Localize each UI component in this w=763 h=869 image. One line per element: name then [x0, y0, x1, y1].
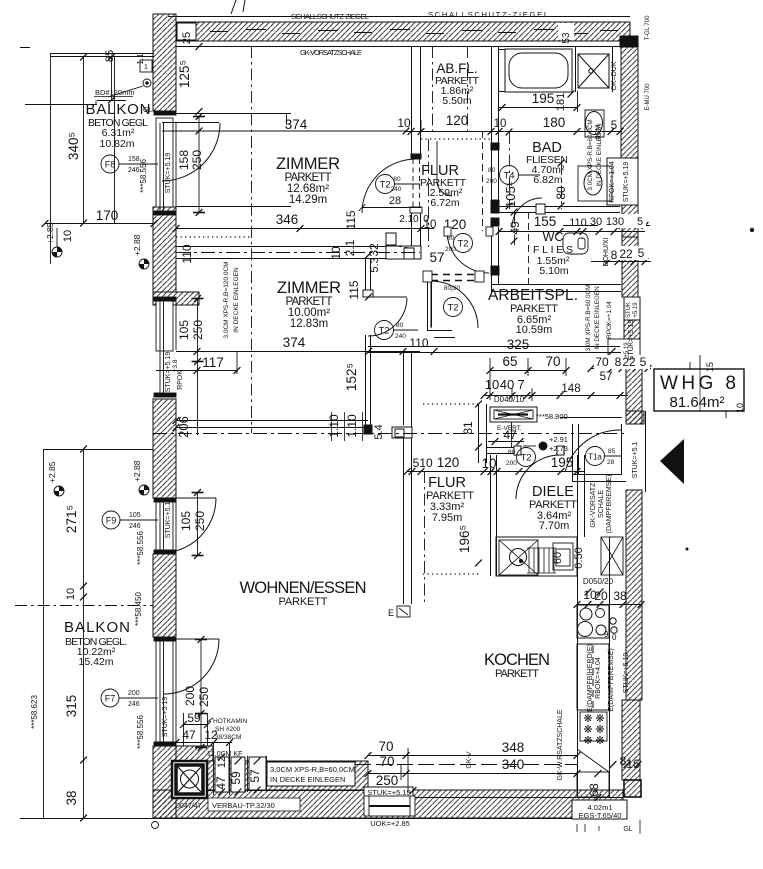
DIELE: [529, 484, 577, 532]
BALKON 2: [64, 619, 130, 668]
svg-text:10: 10: [62, 230, 74, 242]
svg-text:38/38CM: 38/38CM: [215, 734, 241, 741]
kitchen column left edge: [577, 537, 579, 797]
svg-text:250: 250: [190, 150, 204, 170]
svg-text:9: 9: [604, 630, 609, 639]
svg-text:+2.91: +2.91: [549, 435, 568, 444]
svg-text:240: 240: [395, 333, 406, 340]
svg-text:80: 80: [447, 235, 455, 242]
stray dots right: [750, 228, 754, 232]
row D double y420/427 + dash-dot y433: [176, 420, 368, 422]
balcony1 col x83: [80, 54, 87, 61]
svg-text:68: 68: [587, 783, 601, 797]
svg-text:F9: F9: [106, 516, 117, 526]
svg-text:3.0M XPS-R.B=60.0CM: 3.0M XPS-R.B=60.0CM: [585, 285, 592, 352]
svg-text:GL: GL: [143, 107, 152, 114]
svg-text:WC: WC: [543, 230, 564, 244]
svg-text:0.50: 0.50: [573, 547, 585, 568]
svg-text:15.42m: 15.42m: [78, 656, 113, 668]
70 8 22 5 y368: [588, 365, 595, 372]
diele door arc: [516, 455, 560, 499]
svg-text:40: 40: [500, 377, 514, 392]
svg-text:2.10: 2.10: [399, 214, 419, 225]
svg-text:10: 10: [397, 116, 411, 130]
svg-text:20: 20: [594, 589, 608, 603]
125.5 top left col: [196, 43, 203, 50]
svg-text:T-GL 700: T-GL 700: [645, 15, 651, 40]
zimmer1 balcony door arc: [162, 123, 220, 181]
dim 195 line y107: [499, 107, 578, 109]
ab.fl door leaf: [437, 141, 452, 196]
FLUR2 west wall x403/411: [392, 352, 412, 604]
svg-text:STUK=+5.19: STUK=+5.19: [623, 653, 630, 694]
row A y131: [408, 128, 415, 135]
svg-text:SCHALLSCHUTZ-ZIEGEL: SCHALLSCHUTZ-ZIEGEL: [291, 12, 369, 21]
svg-text:WOHNEN/ESSEN: WOHNEN/ESSEN: [240, 579, 367, 597]
WC right dims 8 22 5 y261: [591, 261, 651, 263]
left outer wall hatched segments: [153, 14, 199, 818]
svg-text:158: 158: [128, 156, 140, 163]
right X-box near entry: [601, 537, 623, 575]
svg-text:105: 105: [129, 512, 141, 519]
svg-text:14.29m: 14.29m: [289, 194, 327, 206]
svg-text:GK-W.RSATZSCHALE: GK-W.RSATZSCHALE: [557, 709, 564, 780]
verbau text box bottom-left: [175, 798, 300, 811]
svg-text:T2: T2: [378, 326, 389, 337]
115 col: [365, 252, 372, 259]
balcony 170 y223: [42, 220, 49, 227]
DIELE east wall x577/584 + vestibule: [560, 411, 646, 537]
svg-text:105: 105: [177, 320, 191, 340]
svg-text:65: 65: [502, 354, 517, 369]
svg-text:***58.450: ***58.450: [134, 592, 143, 626]
svg-text:ARBEITSPL.: ARBEITSPL.: [488, 287, 578, 304]
right 70 8 22 5 y368: [591, 368, 651, 370]
svg-text:81: 81: [461, 421, 475, 435]
svg-text:3,0CM XPS-R,B=60,0CM: 3,0CM XPS-R,B=60,0CM: [270, 765, 355, 774]
flur1 dim 120 y231 already in WC row; t2 row y?: [420, 120, 422, 132]
svg-text:155: 155: [534, 214, 557, 229]
wohnen balcony door arc W3: [161, 498, 216, 553]
svg-text:6.72m: 6.72m: [430, 197, 459, 209]
svg-text:UOK=+2.85: UOK=+2.85: [370, 819, 410, 828]
zimmer1 east door arc (into zimmer1): [362, 159, 416, 213]
svg-text:T4: T4: [503, 171, 514, 182]
svg-text:+2.73: +2.73: [549, 444, 568, 453]
svg-text:12: 12: [216, 756, 228, 768]
dim row kitchen y604 (10 20 38): [577, 604, 642, 606]
svg-text:+2.88: +2.88: [132, 234, 142, 256]
bathtub: [499, 49, 572, 92]
svg-text:E: E: [388, 608, 394, 618]
svg-text:1.10: 1.10: [327, 414, 341, 438]
svg-text:10: 10: [494, 118, 507, 130]
svg-text:6.82m: 6.82m: [533, 174, 562, 186]
svg-text:181: 181: [555, 93, 567, 111]
svg-text:271⁵: 271⁵: [64, 505, 79, 533]
row E y471 (510 120 10 200 195): [407, 471, 584, 473]
svg-text:70: 70: [595, 355, 609, 369]
small texts top: [291, 10, 548, 57]
svg-text:(DAMPFBREMSE): (DAMPFBREMSE): [606, 475, 613, 534]
reveal lines: [176, 113, 291, 115]
BAD: [526, 140, 568, 186]
svg-text:RPOK=+1.04: RPOK=+1.04: [609, 161, 616, 203]
svg-text:GK-VORSATZSCHALE: GK-VORSATZSCHALE: [300, 48, 362, 57]
svg-text:70: 70: [545, 354, 560, 369]
svg-text:250: 250: [197, 687, 211, 707]
balcony2 col x83: [80, 446, 87, 453]
svg-text:+2.88: +2.88: [132, 460, 142, 482]
WC door small arc: [512, 198, 542, 228]
bottom wall band: [153, 36, 638, 819]
svg-text:0: 0: [612, 633, 617, 642]
BAD sink unit lower: [578, 166, 612, 201]
svg-text:8: 8: [615, 355, 622, 369]
svg-text:70: 70: [379, 754, 394, 769]
svg-text:22: 22: [619, 247, 633, 261]
svg-text:38: 38: [64, 790, 79, 805]
svg-text:250: 250: [191, 320, 205, 340]
shower: [576, 46, 613, 92]
svg-text:T2: T2: [379, 180, 390, 191]
svg-text:10: 10: [481, 456, 496, 471]
8 22 5 y261: [605, 258, 612, 265]
svg-text:5.3: 5.3: [369, 257, 381, 272]
svg-text:30: 30: [590, 216, 602, 228]
svg-text:GL: GL: [623, 826, 632, 833]
svg-text:15: 15: [705, 362, 715, 372]
chimney (black X box): [172, 761, 207, 798]
svg-text:T2: T2: [447, 303, 458, 314]
svg-text:12.83m: 12.83m: [290, 318, 328, 330]
svg-text:80: 80: [554, 186, 568, 200]
window W1 (Zimmer1 balcony door) y114-211: [154, 111, 406, 215]
dash-dot construction lines: [15, 46, 562, 606]
row E y471: [404, 468, 411, 475]
WHG 8 box: [654, 355, 745, 418]
+2.88 marker at wall (upper): [132, 234, 149, 269]
KOCHEN: [484, 651, 550, 680]
svg-text:246: 246: [128, 167, 140, 174]
wall WC | ARBEITSPL y284/291: [491, 227, 621, 292]
svg-text:+5.19: +5.19: [624, 342, 630, 358]
left wall window dims: [196, 113, 203, 120]
svg-text:GK-V: GK-V: [466, 751, 473, 768]
svg-text:158: 158: [177, 150, 191, 170]
svg-text:***58.556: ***58.556: [136, 715, 145, 749]
wall V1 Zimmer1 | AB.FL/FLUR x411/421: [410, 46, 422, 250]
10 40 7 y395: [481, 392, 488, 399]
195 row y107: [499, 104, 506, 111]
dim line 158/250: [198, 116, 200, 213]
balcony1 dim y223: [45, 223, 154, 225]
svg-text:200: 200: [506, 460, 517, 467]
bottom small marks: [577, 820, 640, 834]
svg-text:10: 10: [485, 377, 499, 392]
+2.85 marker lower balcony: [47, 461, 64, 496]
rows G: 348/340/250 bottom: [368, 755, 577, 757]
svg-text:ZIMMER: ZIMMER: [276, 155, 340, 173]
+2.91/+2.73 near diele: [523, 435, 568, 453]
svg-text:10: 10: [329, 246, 343, 260]
svg-text:+2.85: +2.85: [47, 461, 57, 483]
wall V2 AB.FL/FLUR | BAD x491/499: [491, 46, 499, 275]
top left small marks: [20, 0, 245, 114]
dim row C y351 (374/117): [176, 351, 420, 353]
svg-text:8: 8: [611, 248, 618, 262]
svg-text:110: 110: [180, 244, 194, 263]
svg-text:81.64m²: 81.64m²: [669, 394, 724, 411]
svg-text:5: 5: [637, 216, 643, 228]
svg-text:85: 85: [608, 448, 616, 455]
BD circle + leader balcony1: [94, 79, 151, 97]
svg-text:250: 250: [193, 511, 207, 531]
dim 65/70 y370: [490, 370, 566, 372]
kitchen counter column: [577, 644, 609, 797]
svg-text:RBOK=+4.04: RBOK=+4.04: [595, 657, 602, 699]
FLUR 1: [420, 163, 467, 209]
svg-text:ZIMMER: ZIMMER: [277, 279, 341, 297]
svg-text:❋: ❋: [583, 735, 592, 747]
svg-text:5: 5: [640, 355, 647, 369]
47 y441: [492, 438, 499, 445]
svg-text:T2: T2: [520, 453, 531, 464]
svg-text:STUK=+5.19: STUK=+5.19: [165, 498, 172, 539]
svg-text:16: 16: [626, 757, 640, 771]
svg-text:5.50m: 5.50m: [442, 95, 471, 107]
svg-text:1: 1: [144, 64, 148, 71]
svg-text:374: 374: [283, 335, 306, 350]
svg-text:70: 70: [378, 739, 393, 754]
svg-text:PARKETT: PARKETT: [495, 668, 539, 680]
svg-text:346: 346: [276, 212, 299, 227]
58.800 + level mark: [536, 412, 568, 421]
svg-text:VERBAU-TP.32/30: VERBAU-TP.32/30: [212, 801, 275, 810]
svg-text:80: 80: [488, 167, 496, 174]
arbeitspl door arc: [431, 281, 478, 328]
bottom rows: [365, 752, 372, 759]
ARBEITSPL south wall y346/352: [368, 281, 621, 353]
1051/80 col BAD: [506, 129, 513, 136]
svg-text:340⁵: 340⁵: [66, 132, 81, 160]
svg-text:32: 32: [367, 243, 381, 257]
WC: [533, 230, 573, 277]
svg-text:170: 170: [96, 208, 119, 223]
svg-text:+5.19: +5.19: [633, 302, 639, 318]
206/110 verticals near left wall: [173, 417, 180, 424]
svg-text:57: 57: [429, 250, 444, 265]
WOHNEN/ESSEN: [240, 579, 367, 608]
balcony1 top small dim x111: [97, 100, 126, 102]
top-left balcony rail line: [95, 101, 97, 105]
svg-text:5.10m: 5.10m: [539, 265, 568, 277]
right outer wall hatched segments: [607, 41, 644, 797]
svg-text:HOTKAMIN: HOTKAMIN: [213, 718, 248, 725]
svg-text:80|20: 80|20: [444, 285, 461, 292]
svg-text:195: 195: [551, 455, 574, 470]
svg-text:D050/20: D050/20: [583, 577, 614, 586]
WC toilet: [563, 233, 588, 254]
svg-text:374: 374: [285, 117, 308, 132]
svg-text:***58.556: ***58.556: [136, 531, 145, 565]
svg-text:IN DECKE EINLEGEN: IN DECKE EINLEGEN: [233, 267, 240, 333]
svg-text:10.59m: 10.59m: [516, 324, 553, 336]
dim row B y228 (346): [176, 228, 434, 230]
Zimmer2 east wall x365/370: [363, 259, 373, 434]
dim row A y131 (AB.FL): [406, 131, 622, 133]
svg-text:110: 110: [409, 336, 428, 350]
right wall dims y225: [563, 225, 650, 227]
DIELE north wall y447/453 with door opening: [486, 446, 565, 455]
WC dim row y231 (155ƒ): [499, 231, 645, 233]
svg-text:T2: T2: [457, 239, 468, 250]
117 y370: [194, 367, 201, 374]
svg-text:STUK=+5.19: STUK=+5.19: [165, 153, 172, 194]
svg-text:3.0CM XPS-R.B=60.0CM: 3.0CM XPS-R.B=60.0CM: [587, 119, 594, 190]
upper-left horizontal line above balcony: [25, 104, 97, 106]
svg-text:115: 115: [347, 280, 361, 299]
FLUR2 east wall x478/486 upper: [479, 404, 487, 463]
svg-text:STUK=+5.19: STUK=+5.19: [165, 352, 172, 393]
svg-text:325: 325: [507, 337, 530, 352]
dotted lines: [176, 139, 491, 574]
AB.FL.: [435, 61, 480, 107]
svg-text:FLUR: FLUR: [428, 475, 466, 491]
2nd balcony left dim line x83: [83, 449, 85, 818]
svg-text:5.4: 5.4: [373, 424, 385, 439]
FLUR 2: [426, 475, 474, 524]
svg-text:F7: F7: [105, 694, 116, 704]
svg-text:57: 57: [600, 371, 613, 383]
svg-text:7.95m: 7.95m: [432, 512, 463, 524]
svg-text:200: 200: [183, 686, 197, 706]
152.5 col x368: [365, 348, 372, 355]
window W2 (Zimmer2) y298-399: [154, 297, 204, 435]
lower balcony door arc W4: [164, 639, 219, 694]
svg-text:F8: F8: [105, 160, 116, 170]
svg-text:315: 315: [64, 695, 79, 718]
ZIMMER 1: [276, 155, 340, 206]
flur1 small door dashes (arbeitspl top): [431, 275, 476, 281]
svg-text:340: 340: [502, 757, 525, 772]
svg-text:28: 28: [389, 195, 401, 207]
svg-text:7: 7: [517, 377, 524, 392]
BALKON 1: [86, 101, 151, 150]
svg-text:246: 246: [128, 701, 140, 708]
svg-text:110: 110: [569, 217, 587, 229]
svg-text:152⁵: 152⁵: [344, 363, 359, 391]
svg-text:117: 117: [202, 355, 224, 370]
10 20 38 verticals: [585, 589, 592, 596]
svg-text:246: 246: [129, 523, 141, 530]
svg-text:E-MU 700: E-MU 700: [645, 83, 651, 111]
svg-text:0: 0: [423, 214, 429, 225]
svg-text:+2.85: +2.85: [45, 222, 55, 244]
svg-text:28: 28: [607, 459, 615, 466]
svg-text:5: 5: [638, 246, 645, 260]
svg-text:KOCHEN: KOCHEN: [484, 651, 550, 669]
svg-text:BALKON: BALKON: [86, 101, 151, 118]
svg-text:STUK=+5.19: STUK=+5.19: [162, 697, 169, 738]
svg-text:❋: ❋: [595, 735, 604, 747]
374 dim y124: [196, 128, 203, 135]
svg-text:57: 57: [248, 769, 262, 783]
svg-text:10: 10: [735, 403, 745, 413]
svg-text:SCHALLSCHUTZ-ZIEGEL: SCHALLSCHUTZ-ZIEGEL: [428, 10, 548, 19]
svg-text:200: 200: [486, 178, 497, 185]
svg-text:10: 10: [65, 588, 77, 600]
svg-text:1.1: 1.1: [136, 53, 145, 65]
bottom left D circle: [152, 822, 159, 829]
+2.85 marker upper balcony: [45, 222, 62, 257]
svg-text:53: 53: [561, 32, 572, 44]
ZIMMER 2: [277, 279, 341, 330]
svg-text:AB.FL.: AB.FL.: [436, 61, 477, 76]
svg-text:3.0CM XPS-R.B=120.0CM: 3.0CM XPS-R.B=120.0CM: [223, 261, 230, 338]
svg-text:EGS-T.65/40: EGS-T.65/40: [579, 811, 622, 820]
svg-text:200: 200: [445, 246, 456, 253]
balcony1 lines: [50, 53, 52, 264]
svg-text:125⁵: 125⁵: [177, 60, 192, 88]
svg-text:105¹: 105¹: [503, 181, 518, 208]
row B y228: [173, 225, 180, 232]
window W3 (Wohnen balcony door) y498-554: [154, 492, 204, 556]
svg-text:120: 120: [437, 455, 460, 470]
svg-text:80: 80: [396, 322, 404, 329]
49 col WC: [511, 209, 518, 216]
svg-text:RPOK: RPOK: [177, 370, 184, 390]
svg-text:10.82m: 10.82m: [99, 138, 134, 150]
bottom band white door box right: [364, 796, 415, 816]
BAD washbasin (top, on east wall): [585, 110, 604, 137]
65 70 y370: [487, 367, 494, 374]
svg-text:STUK=+5.19: STUK=+5.19: [623, 162, 630, 203]
dim 10 40 7 y395: [484, 395, 628, 397]
svg-text:BD#120mm: BD#120mm: [95, 88, 135, 97]
svg-text:195: 195: [532, 91, 555, 106]
top wall band: [168, 17, 630, 47]
svg-text:7.70m: 7.70m: [539, 520, 570, 532]
81/196.5 col x478: [475, 401, 482, 408]
big black arrow: [660, 439, 684, 484]
entry fixtures row: [496, 537, 577, 576]
svg-text:D047/47: D047/47: [175, 803, 202, 810]
svg-text:25: 25: [181, 32, 193, 44]
svg-text:59: 59: [187, 711, 201, 725]
svg-text:WHG 8: WHG 8: [660, 373, 736, 394]
svg-text:SH #200: SH #200: [215, 726, 241, 733]
ARBEITSPL.: [488, 287, 578, 336]
svg-text:10: 10: [419, 456, 433, 470]
svg-text:***58.800: ***58.800: [536, 412, 568, 421]
325 y351: [431, 348, 438, 355]
svg-text:IN DECKE EINLEGEN: IN DECKE EINLEGEN: [270, 775, 345, 784]
svg-text:DIELE: DIELE: [532, 484, 574, 500]
svg-text:180: 180: [543, 115, 566, 130]
svg-text:STUK=+5.1: STUK=+5.1: [632, 442, 639, 479]
svg-text:47: 47: [182, 728, 196, 742]
svg-text:348: 348: [502, 740, 525, 755]
svg-text:BALKON: BALKON: [64, 619, 130, 636]
svg-text:85: 85: [104, 50, 116, 62]
svg-text:PARKETT: PARKETT: [279, 596, 328, 608]
68/8 16 bottom right col: [595, 770, 602, 777]
svg-text:115: 115: [344, 210, 358, 229]
kitchen y604: [574, 601, 581, 608]
svg-text:148: 148: [561, 383, 580, 395]
arbeits dim 325 row part: [434, 337, 455, 339]
